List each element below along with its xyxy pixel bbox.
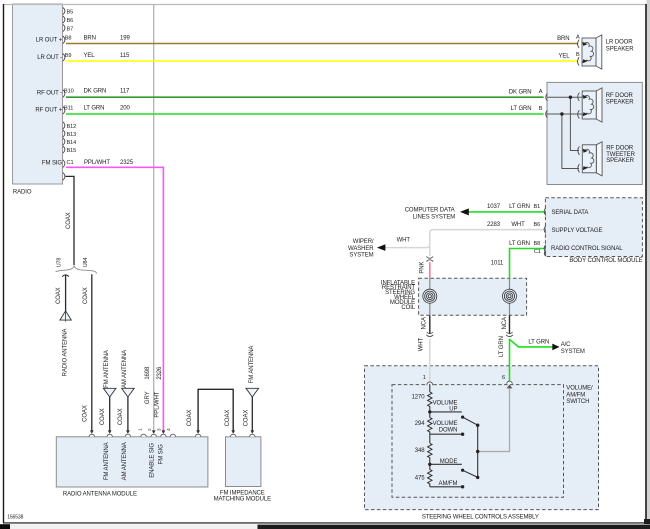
svg-text:ENABLE SIG: ENABLE SIG <box>149 443 155 478</box>
svg-text:1011: 1011 <box>491 261 504 267</box>
svg-text:SERIAL DATA: SERIAL DATA <box>552 210 589 216</box>
svg-text:COIL: COIL <box>401 305 415 311</box>
svg-text:LR OUT -: LR OUT - <box>37 55 62 61</box>
svg-text:BODY CONTROL MODULE: BODY CONTROL MODULE <box>569 258 642 264</box>
svg-text:BRN: BRN <box>557 36 569 42</box>
svg-text:B13: B13 <box>67 132 77 138</box>
svg-text:WIPER/: WIPER/ <box>353 239 374 245</box>
svg-text:RF OUT -: RF OUT - <box>37 91 62 97</box>
svg-text:B9: B9 <box>65 53 72 59</box>
svg-text:199: 199 <box>120 36 130 42</box>
svg-text:YEL: YEL <box>84 53 96 59</box>
svg-text:RF OUT +: RF OUT + <box>35 108 62 114</box>
svg-text:200: 200 <box>120 105 130 111</box>
svg-text:RF DOOR: RF DOOR <box>606 93 634 99</box>
svg-text:STEERING WHEEL CONTROLS ASSEMB: STEERING WHEEL CONTROLS ASSEMBLY <box>422 514 539 520</box>
svg-text:VOLUME: VOLUME <box>433 421 458 427</box>
svg-text:1037: 1037 <box>487 204 501 210</box>
svg-text:156538: 156538 <box>7 514 23 520</box>
svg-text:FM SIG: FM SIG <box>42 161 62 167</box>
svg-text:U78: U78 <box>57 258 63 268</box>
svg-text:1: 1 <box>423 375 426 381</box>
svg-text:RADIO CONTROL SIGNAL: RADIO CONTROL SIGNAL <box>551 246 623 252</box>
svg-text:LT GRN: LT GRN <box>499 336 505 357</box>
svg-text:RADIO ANTENNA MODULE: RADIO ANTENNA MODULE <box>63 491 137 497</box>
svg-text:B5: B5 <box>67 10 74 16</box>
svg-text:PPL/WHT: PPL/WHT <box>154 391 160 417</box>
svg-text:A: A <box>539 89 543 95</box>
svg-text:MATCHING MODULE: MATCHING MODULE <box>214 497 271 503</box>
svg-text:LR OUT +: LR OUT + <box>36 38 63 44</box>
svg-text:C1: C1 <box>534 249 541 255</box>
svg-text:U84: U84 <box>83 258 89 268</box>
svg-text:MODE: MODE <box>440 459 458 465</box>
svg-text:115: 115 <box>120 53 130 59</box>
svg-text:B8: B8 <box>65 36 72 42</box>
svg-text:WHT: WHT <box>511 222 525 228</box>
svg-text:B15: B15 <box>67 148 77 154</box>
svg-text:SPEAKER: SPEAKER <box>606 158 634 164</box>
svg-text:SUPPLY VOLTAGE: SUPPLY VOLTAGE <box>552 228 603 234</box>
svg-text:SWITCH: SWITCH <box>566 399 589 405</box>
svg-text:NCA: NCA <box>502 317 508 329</box>
svg-text:GRY: GRY <box>145 391 151 404</box>
svg-text:LT GRN: LT GRN <box>528 339 549 345</box>
svg-text:117: 117 <box>120 89 130 95</box>
svg-text:VOLUME: VOLUME <box>433 400 458 406</box>
svg-text:COAX: COAX <box>225 410 231 427</box>
svg-text:AM/FM: AM/FM <box>566 392 585 398</box>
svg-text:COAX: COAX <box>118 408 124 425</box>
svg-text:LT GRN: LT GRN <box>509 204 530 210</box>
svg-text:COAX: COAX <box>187 410 193 427</box>
svg-text:2326: 2326 <box>157 366 163 380</box>
svg-text:294: 294 <box>415 421 425 427</box>
svg-text:UP: UP <box>449 407 457 413</box>
svg-text:PPL/WHT: PPL/WHT <box>84 160 110 166</box>
svg-text:WHT: WHT <box>397 238 411 244</box>
svg-text:AM/FM: AM/FM <box>439 481 458 487</box>
svg-text:B8: B8 <box>533 241 540 247</box>
svg-text:BRN: BRN <box>84 36 96 42</box>
svg-text:B: B <box>539 106 543 112</box>
svg-text:YEL: YEL <box>558 54 570 60</box>
svg-text:B7: B7 <box>67 27 74 33</box>
svg-text:DK GRN: DK GRN <box>84 89 107 95</box>
svg-text:B10: B10 <box>64 89 74 95</box>
svg-text:2283: 2283 <box>487 222 501 228</box>
svg-text:COAX: COAX <box>244 410 250 427</box>
svg-text:C1: C1 <box>67 160 74 166</box>
svg-text:COAX: COAX <box>100 408 106 425</box>
svg-text:AM ANTENNA: AM ANTENNA <box>122 350 128 388</box>
svg-text:COAX: COAX <box>83 287 89 304</box>
svg-text:FM ANTENNA: FM ANTENNA <box>104 350 110 388</box>
svg-text:LR DOOR: LR DOOR <box>606 39 633 45</box>
svg-text:SPEAKER: SPEAKER <box>606 99 634 105</box>
svg-text:6: 6 <box>502 375 505 381</box>
svg-text:DOWN: DOWN <box>439 428 458 434</box>
svg-text:PNK: PNK <box>420 261 426 273</box>
svg-text:RADIO: RADIO <box>13 190 32 196</box>
svg-text:SYSTEM: SYSTEM <box>561 349 585 355</box>
svg-text:1698: 1698 <box>145 366 151 380</box>
svg-text:LT GRN: LT GRN <box>509 241 530 247</box>
svg-text:SYSTEM: SYSTEM <box>349 253 373 259</box>
svg-text:SPEAKER: SPEAKER <box>606 47 634 53</box>
svg-text:2325: 2325 <box>120 160 134 166</box>
svg-text:B6: B6 <box>67 18 74 24</box>
svg-text:AM ANTENNA: AM ANTENNA <box>122 442 128 480</box>
svg-text:348: 348 <box>415 448 425 454</box>
svg-text:1270: 1270 <box>412 395 426 401</box>
svg-text:FM ANTENNA: FM ANTENNA <box>249 346 255 384</box>
svg-text:475: 475 <box>415 475 425 481</box>
svg-text:COAX: COAX <box>66 212 72 229</box>
svg-text:RADIO ANTENNA: RADIO ANTENNA <box>62 329 68 377</box>
svg-text:RF DOOR: RF DOOR <box>606 146 634 152</box>
svg-text:COMPUTER DATA: COMPUTER DATA <box>405 207 455 213</box>
svg-text:WHT: WHT <box>419 337 425 351</box>
svg-text:COAX: COAX <box>83 405 89 422</box>
svg-text:B1: B1 <box>533 204 540 210</box>
svg-text:COAX: COAX <box>56 287 62 304</box>
svg-text:FM SIG: FM SIG <box>159 444 165 464</box>
svg-text:NCA: NCA <box>421 317 427 329</box>
svg-text:B14: B14 <box>67 140 77 146</box>
svg-text:A/C: A/C <box>561 342 571 348</box>
svg-text:FM ANTENNA: FM ANTENNA <box>104 442 110 480</box>
svg-text:LINES SYSTEM: LINES SYSTEM <box>413 215 456 221</box>
svg-text:WASHER: WASHER <box>348 246 374 252</box>
svg-text:LT GRN: LT GRN <box>511 106 532 112</box>
svg-text:B11: B11 <box>64 105 73 111</box>
svg-text:LT GRN: LT GRN <box>84 105 105 111</box>
svg-text:B12: B12 <box>67 124 77 130</box>
svg-text:A: A <box>576 35 580 41</box>
svg-text:DK GRN: DK GRN <box>509 89 532 95</box>
svg-text:TWEETER: TWEETER <box>606 152 635 158</box>
svg-text:VOLUME/: VOLUME/ <box>566 386 593 392</box>
svg-text:B: B <box>576 52 580 58</box>
svg-text:B6: B6 <box>533 222 540 228</box>
